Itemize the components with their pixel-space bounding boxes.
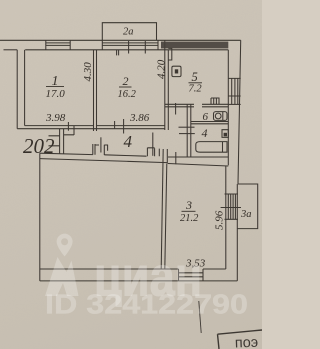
pilaster stub room5 top left	[168, 48, 172, 60]
svg-text:3: 3	[185, 198, 192, 212]
wall apartment boundary bottom upper line with entry door gap	[40, 153, 147, 156]
room label 3	[180, 198, 199, 224]
svg-text:6: 6	[203, 111, 209, 123]
entry door left jamb	[93, 144, 99, 155]
window tick below top wall in room2	[117, 50, 119, 55]
wall room5 bottom (C) lower line	[165, 106, 229, 108]
wall room3 left lower left line	[161, 149, 163, 269]
wall left stub to neighbour	[4, 49, 18, 51]
stamp box bottom right	[218, 330, 263, 349]
svg-text:202: 202	[23, 134, 55, 158]
wall top outer line and right building line	[0, 40, 241, 184]
entry door leaf	[100, 137, 102, 152]
wall left inner	[24, 50, 26, 126]
electric box inner mark	[175, 69, 178, 73]
bathtub	[196, 142, 227, 153]
svg-text:4.30: 4.30	[82, 62, 94, 82]
closet right wall double line	[60, 129, 64, 154]
svg-text:3.86: 3.86	[129, 112, 150, 124]
svg-text:4: 4	[124, 132, 133, 151]
wall room2 right (A) upper right line	[167, 50, 169, 130]
tick room2 wall right	[123, 119, 125, 134]
tick room3 right wall dimension	[221, 207, 241, 209]
shaft below room5 window	[228, 103, 240, 105]
wall corridor top upper line with door gaps	[25, 125, 165, 127]
wall top filled segment above room5	[161, 42, 228, 49]
toilet tank outline	[214, 112, 228, 121]
window room3 right (balcony door unit)	[225, 194, 239, 219]
window room 1	[46, 40, 70, 50]
room label 1	[46, 74, 66, 100]
svg-text:4.20: 4.20	[156, 59, 168, 79]
toilet bowl circle	[215, 113, 221, 119]
wall left neighbour line	[39, 153, 41, 281]
entry door right jamb	[104, 145, 108, 155]
electric box room5	[172, 66, 181, 76]
svg-text:2a: 2a	[123, 27, 134, 38]
closet shelf stubs	[49, 136, 60, 146]
watermark logo mark	[45, 257, 79, 296]
wall room5 bottom (C) upper line with door gap	[165, 103, 229, 105]
svg-text:2: 2	[123, 74, 129, 88]
watermark pin	[57, 234, 73, 257]
wall room3 left lower right line	[166, 149, 168, 164]
wall right inner kitchen-wc-bath	[227, 50, 229, 166]
room label 5	[189, 70, 203, 94]
svg-text:4: 4	[202, 126, 208, 140]
wall divider rooms 1-2 left line	[93, 50, 95, 131]
tick wall B lower door jamb	[179, 133, 195, 135]
svg-text:16.2: 16.2	[118, 89, 137, 100]
wall left outer	[16, 50, 18, 129]
svg-text:7.2: 7.2	[189, 83, 203, 94]
room label 2	[118, 74, 137, 100]
wall room3 left inner line	[165, 164, 167, 269]
balcony 3a box	[237, 184, 257, 229]
wall room3 right inner	[225, 166, 227, 270]
wall divider rooms 1-2 right line	[96, 50, 98, 131]
wall room2 right (A) upper left line	[164, 40, 166, 130]
sink inner mark	[224, 133, 227, 137]
toilet tank divider	[222, 112, 224, 121]
wall bottom inner line	[40, 268, 226, 270]
svg-text:поэ: поэ	[235, 335, 259, 349]
wall bath hall left (B) left line	[186, 104, 188, 157]
tick dimension 3.98 right end	[67, 122, 69, 131]
tick room2 wall left	[114, 121, 116, 129]
tick wall C crossing	[175, 103, 177, 115]
wall room3 top / bath bottom upper line	[168, 156, 228, 158]
door room1 jamb and closet top	[64, 126, 74, 135]
wall room3 right outer below balcony	[236, 184, 238, 281]
sink bathroom	[222, 130, 228, 138]
wall wc-bath divider (D) upper line	[191, 121, 229, 123]
wall wc-bath divider (D) lower line	[191, 123, 229, 125]
svg-text:17.0: 17.0	[46, 88, 66, 100]
svg-text:5.96: 5.96	[214, 210, 226, 230]
door room3 leaf line	[152, 133, 154, 156]
window room3 bottom box	[179, 269, 204, 281]
svg-text:ID 324122790: ID 324122790	[45, 289, 248, 320]
stray vertical line below plan	[199, 301, 201, 333]
window room5 right	[228, 78, 240, 104]
wall top inner line	[25, 49, 228, 51]
door jamb room3 top left	[175, 152, 177, 164]
svg-text:5: 5	[192, 70, 198, 84]
balcony 2a box	[102, 23, 156, 41]
wall bottom outer line	[40, 280, 238, 282]
window room 2 under balcony	[102, 40, 158, 53]
svg-text:3.98: 3.98	[45, 112, 66, 124]
door room3 jambs	[147, 148, 159, 157]
wall bath hall left (B) right line	[190, 104, 192, 157]
vent duct box on wall C	[211, 98, 219, 104]
wall room3 top / bath bottom lower line	[168, 164, 228, 167]
tick wall B crossing	[179, 126, 195, 128]
wall apartment boundary bottom lower line	[40, 159, 167, 163]
svg-text:21.2: 21.2	[180, 213, 199, 224]
svg-text:3a: 3a	[240, 209, 252, 220]
wall corridor top lower line	[17, 128, 165, 130]
bathtub inner end line	[222, 142, 224, 153]
